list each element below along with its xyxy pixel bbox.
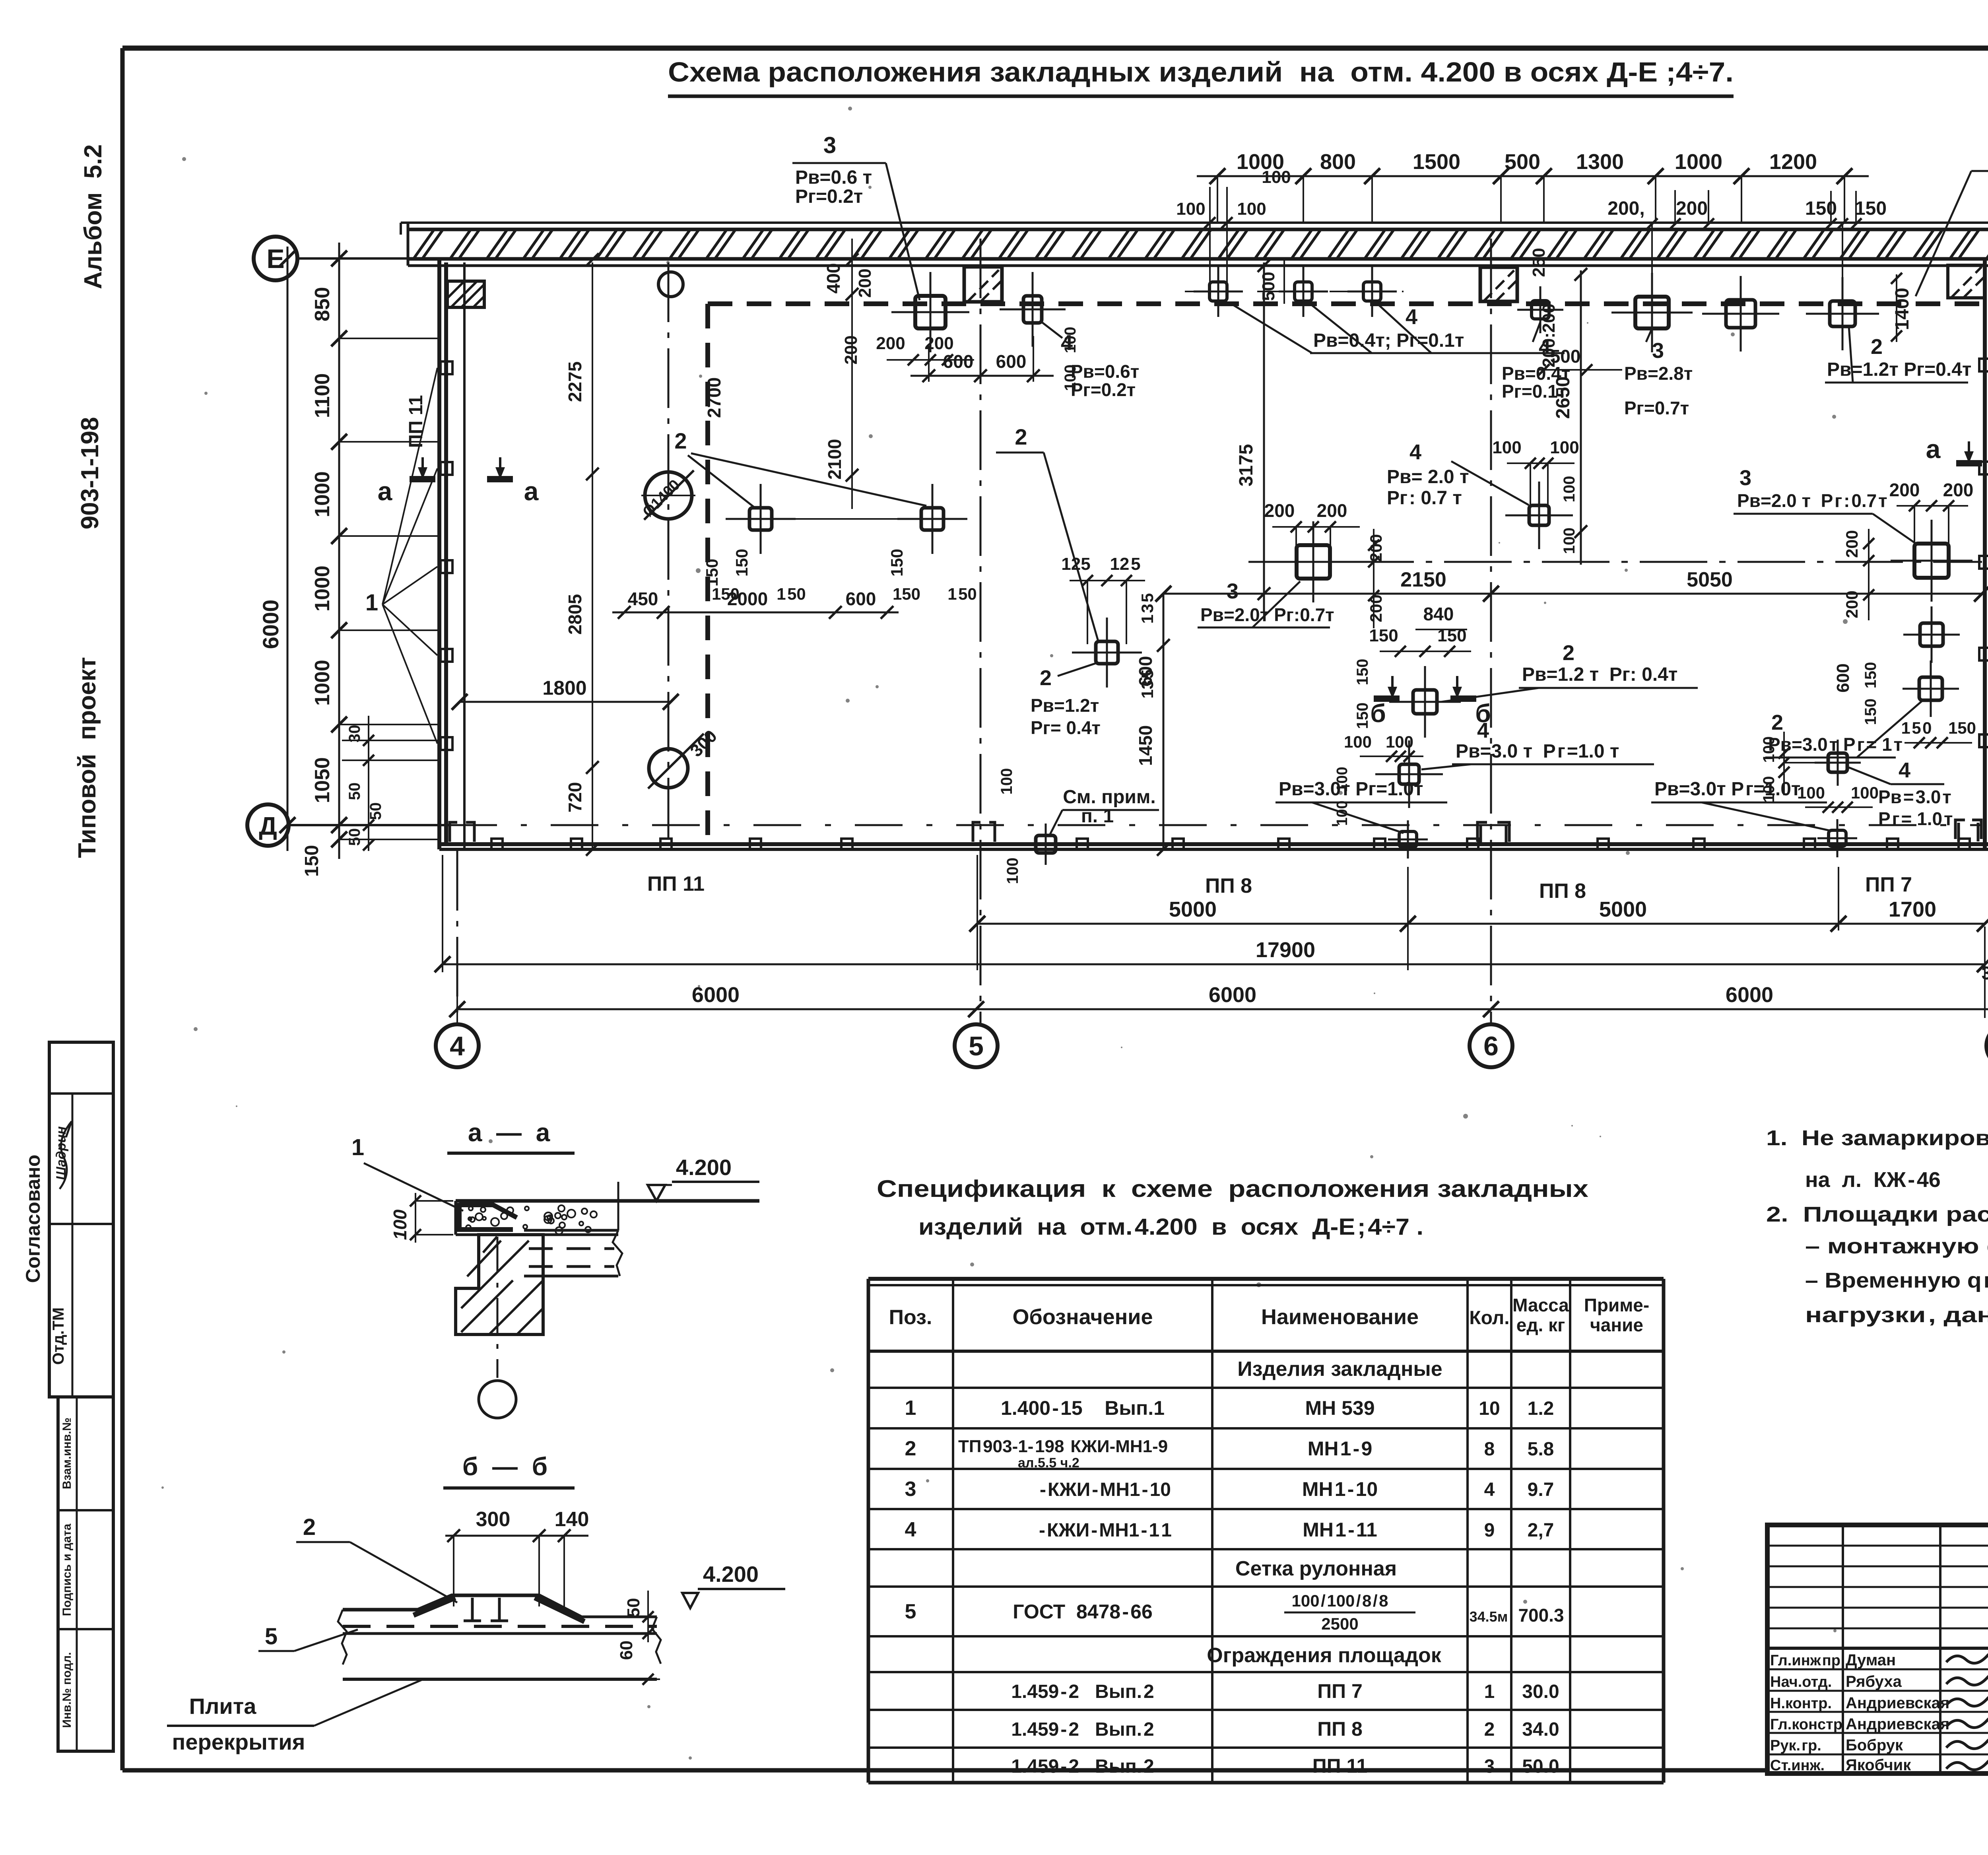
svg-text:34.0: 34.0 <box>1522 1719 1559 1740</box>
svg-text:2: 2 <box>1484 1719 1495 1740</box>
svg-text:2: 2 <box>674 428 687 453</box>
svg-text:Согласовано: Согласовано <box>22 1155 44 1283</box>
svg-text:2,7: 2,7 <box>1528 1520 1554 1541</box>
platform dashed edge vertical <box>705 304 710 843</box>
axis 6 line <box>1490 239 1492 1023</box>
svg-text:1. Не замаркированные закладн: 1. Не замаркированные закладные изделия … <box>1766 1126 1988 1150</box>
svg-text:ПП 11: ПП 11 <box>406 395 427 448</box>
svg-text:4: 4 <box>1539 335 1551 359</box>
svg-text:100: 100 <box>1004 858 1021 884</box>
column bracket axis5/D <box>973 822 995 842</box>
label 4 Pv0.4 Pg0.1 two lines <box>1502 322 1570 402</box>
svg-text:4.200: 4.200 <box>703 1562 759 1587</box>
top wall hatched strip <box>401 223 1988 266</box>
plate bottom mid <box>1388 820 1428 859</box>
center line through pair <box>736 518 958 520</box>
label 4 Pv3.0 Pg1.0 right bottom <box>1849 758 1953 829</box>
svg-text:МН 1 - 9: МН 1 - 9 <box>1308 1437 1373 1460</box>
notes text <box>1766 1126 1988 1327</box>
svg-text:150: 150 <box>732 549 751 577</box>
svg-text:1100: 1100 <box>311 373 334 418</box>
plate item4 small right of column6 <box>1517 286 1563 333</box>
svg-text:Рв=1.2т Рг=0.4т: Рв=1.2т Рг=0.4т <box>1827 359 1971 380</box>
svg-text:200: 200 <box>841 335 861 364</box>
svg-text:3: 3 <box>823 132 836 158</box>
plate item3 mid <box>1273 521 1354 602</box>
svg-text:Альбом 5.2: Альбом 5.2 <box>80 144 107 289</box>
dim 2150/5050 chain at y1493 <box>1155 568 1988 602</box>
label 4 Pv3.0 Pg1.0 <box>1421 719 1654 769</box>
svg-text:Обозначение: Обозначение <box>1012 1305 1153 1329</box>
svg-text:4.200: 4.200 <box>676 1155 732 1180</box>
svg-text:Рг : 0.7 т: Рг : 0.7 т <box>1387 488 1462 509</box>
label Pv3.0 Pg1.0 bottom right <box>1651 779 1832 831</box>
dim 200 200 rotated right of column6 <box>1539 303 1559 367</box>
svg-text:1: 1 <box>1484 1681 1495 1702</box>
section b-b slab with embedded plate <box>343 1595 657 1634</box>
svg-text:Рв=1.2т: Рв=1.2т <box>1031 695 1099 716</box>
svg-text:100: 100 <box>1760 776 1778 803</box>
svg-text:200: 200 <box>1676 198 1708 219</box>
svg-text:1: 1 <box>351 1134 364 1160</box>
svg-text:на л. КЖ - 46: на л. КЖ - 46 <box>1805 1168 1941 1192</box>
svg-text:5: 5 <box>265 1624 278 1649</box>
column axis4/E <box>447 281 484 307</box>
svg-text:4: 4 <box>1406 305 1417 329</box>
label plita perekrytiya <box>167 1680 421 1754</box>
bottom wall small plates <box>491 839 1970 850</box>
svg-text:б — б: б — б <box>462 1452 547 1481</box>
svg-text:1050: 1050 <box>311 757 334 803</box>
svg-text:6000: 6000 <box>1209 983 1256 1007</box>
plate item3 right big <box>1891 520 1972 602</box>
spec row 7 <box>1011 1718 1559 1740</box>
svg-text:500: 500 <box>1550 346 1581 367</box>
svg-text:150: 150 <box>1862 699 1879 725</box>
svg-text:800: 800 <box>1320 150 1356 174</box>
svg-text:ПП 7: ПП 7 <box>1865 873 1912 896</box>
platform dashed edge top <box>708 301 1982 306</box>
svg-text:200: 200 <box>1943 480 1974 500</box>
svg-text:Рв=2.0 т Р г : 0.7 т: Рв=2.0 т Р г : 0.7 т <box>1737 490 1887 511</box>
svg-text:Рв = 3.0 т: Рв = 3.0 т <box>1878 787 1951 807</box>
svg-text:Рв=0.6 т: Рв=0.6 т <box>795 167 872 188</box>
plate bottom right <box>1817 819 1857 857</box>
svg-text:Рв=1.2 т Рг: 0.4т: Рв=1.2 т Рг: 0.4т <box>1522 664 1677 685</box>
svg-text:200: 200 <box>1264 500 1295 521</box>
svg-text:500: 500 <box>1505 150 1540 174</box>
svg-text:10: 10 <box>1479 1398 1500 1419</box>
section b-b label 2 <box>296 1514 457 1602</box>
svg-text:Рябуха: Рябуха <box>1846 1673 1902 1690</box>
svg-text:Рг= 0.4т: Рг= 0.4т <box>1031 717 1101 738</box>
plate right mid2 <box>1903 660 1959 717</box>
svg-text:100 / 100 / 8 / 8: 100 / 100 / 8 / 8 <box>1292 1591 1388 1610</box>
svg-text:600: 600 <box>1833 663 1853 692</box>
left wall <box>439 258 464 849</box>
svg-text:Изделия закладные: Изделия закладные <box>1237 1358 1442 1381</box>
dims 200/200 left of right big plate <box>1842 529 1874 620</box>
column axis5/E <box>964 267 1002 302</box>
svg-text:150: 150 <box>1354 703 1371 729</box>
svg-text:ПП 8: ПП 8 <box>1205 874 1252 897</box>
svg-text:100: 100 <box>1062 327 1079 354</box>
label see note p1 <box>1050 787 1159 835</box>
svg-text:Инв.№ подл.: Инв.№ подл. <box>60 1652 74 1728</box>
svg-text:5000: 5000 <box>1599 897 1647 921</box>
plate item2 mid (125/135 dims) <box>1072 618 1142 688</box>
svg-text:125: 125 <box>1061 554 1090 574</box>
label 5 top right with leader <box>1916 142 1988 296</box>
label 3 Pv2.8 Pg0.7 <box>1624 328 1693 418</box>
opening circle small top <box>658 272 683 297</box>
dim 450/2000/600 chain <box>612 589 899 619</box>
svg-text:450: 450 <box>628 589 658 609</box>
svg-text:Р г = 1.0 т: Р г = 1.0 т <box>1878 808 1953 829</box>
svg-text:2: 2 <box>905 1437 916 1460</box>
dims 150 pairs around pair plates <box>703 549 977 603</box>
svg-text:– монтажную q Н = 10 кПа ( 10: – монтажную q Н = 10 кПа ( 1000 кг / м² … <box>1805 1234 1988 1258</box>
svg-text:2: 2 <box>1563 641 1574 665</box>
svg-text:Кол.: Кол. <box>1469 1307 1509 1329</box>
top small dims 200 200 <box>1607 190 1714 278</box>
svg-text:2150: 2150 <box>1400 568 1446 591</box>
svg-text:8: 8 <box>1484 1439 1495 1460</box>
svg-text:Е: Е <box>266 244 284 274</box>
column axis6/E <box>1480 267 1517 301</box>
svg-text:Нач.отд.: Нач.отд. <box>1770 1674 1832 1690</box>
spec table header texts <box>889 1295 1650 1335</box>
svg-text:17900: 17900 <box>1256 938 1315 962</box>
svg-text:а — а: а — а <box>468 1118 550 1147</box>
svg-text:1700: 1700 <box>1889 897 1936 921</box>
svg-text:200: 200 <box>876 334 905 353</box>
dims 100 100 left of plate4 bb <box>1334 732 1423 826</box>
svg-text:МН 539: МН 539 <box>1305 1397 1375 1419</box>
svg-text:150: 150 <box>703 559 721 587</box>
column bracket axis6/D <box>1477 822 1509 844</box>
svg-text:1400: 1400 <box>1892 288 1913 330</box>
svg-text:2805: 2805 <box>565 594 585 635</box>
svg-text:Масса: Масса <box>1512 1295 1569 1315</box>
dims 200 200 above right big plate <box>1889 480 1974 549</box>
svg-text:100: 100 <box>1492 438 1521 457</box>
svg-text:100: 100 <box>1797 783 1825 802</box>
svg-text:1000: 1000 <box>311 565 334 612</box>
dim 600 600 under axis5 plates <box>911 336 1054 382</box>
svg-text:1000: 1000 <box>311 471 334 517</box>
svg-text:100: 100 <box>1344 732 1372 751</box>
svg-text:нагрузки , данные на схемах (: нагрузки , данные на схемах ( л. КЖ - 44… <box>1805 1303 1988 1327</box>
spec row 1 <box>905 1397 1554 1420</box>
svg-text:Типовой проект: Типовой проект <box>74 657 101 858</box>
dim 100 100 left bottom <box>998 768 1021 884</box>
svg-text:Спецификация к схеме распол: Спецификация к схеме расположения заклад… <box>877 1175 1588 1202</box>
dim 1400 rotated right top <box>1891 273 1913 342</box>
spec row 6 <box>1011 1680 1559 1702</box>
left overall dim 6000 <box>258 247 295 851</box>
svg-text:720: 720 <box>565 782 585 813</box>
title block outer <box>1767 1525 1988 1773</box>
dim 600/1450 vertical at 2926 <box>1135 594 1170 856</box>
label 1 left with fan <box>365 368 437 744</box>
svg-text:1 3 5: 1 3 5 <box>1138 593 1157 624</box>
svg-text:2275: 2275 <box>565 361 585 402</box>
svg-text:1000: 1000 <box>311 660 334 706</box>
column axis7/E <box>1948 265 1985 298</box>
section b-b label 5 <box>258 1624 358 1651</box>
plate item2 b-b marked <box>1389 666 1461 738</box>
svg-text:1800: 1800 <box>542 677 586 699</box>
svg-text:1500: 1500 <box>1413 150 1460 174</box>
plate right small (100 dims) <box>1815 740 1861 786</box>
svg-text:Наименование: Наименование <box>1261 1305 1419 1329</box>
label 2 Pv1.2 Pg0.4 right of b-b <box>1441 641 1698 702</box>
svg-text:840: 840 <box>1423 604 1454 624</box>
svg-text:2: 2 <box>1015 424 1027 449</box>
svg-text:Сетка рулонная: Сетка рулонная <box>1235 1557 1397 1580</box>
svg-text:Рв=2.8т: Рв=2.8т <box>1624 363 1693 384</box>
svg-text:100: 100 <box>1561 528 1578 554</box>
svg-text:4: 4 <box>905 1518 916 1541</box>
svg-text:5050: 5050 <box>1687 568 1733 591</box>
signature roles and names <box>1770 1651 1949 1774</box>
spec table <box>868 1279 1664 1783</box>
svg-text:250: 250 <box>1529 248 1549 277</box>
svg-text:903-1-198: 903-1-198 <box>76 417 104 530</box>
svg-text:п. 1: п. 1 <box>1081 806 1114 827</box>
right wall <box>1985 258 1988 849</box>
svg-text:ГОСТ 8478 - 66: ГОСТ 8478 - 66 <box>1013 1601 1153 1623</box>
svg-text:600: 600 <box>1135 656 1156 687</box>
dims 200/200 right of plate item3 mid <box>1367 529 1385 628</box>
svg-text:600: 600 <box>846 589 876 609</box>
axis D line inside dash <box>449 824 1982 826</box>
svg-text:4: 4 <box>1409 440 1421 464</box>
section mark a left pair <box>378 457 539 506</box>
svg-text:2: 2 <box>303 1514 316 1540</box>
svg-text:150: 150 <box>1948 719 1976 737</box>
label 2 Pv1.2 Pg0.4 top right <box>1825 326 1971 383</box>
svg-text:5000: 5000 <box>1169 897 1217 921</box>
top small dims 150 150 <box>1805 191 1887 278</box>
axis bubble 4 <box>436 1024 479 1067</box>
svg-text:Д: Д <box>259 812 277 840</box>
left dim chain 850/1100/1000x3/1050 <box>301 243 441 877</box>
svg-text:Рг=0.2т: Рг=0.2т <box>795 186 863 207</box>
svg-text:12 5: 12 5 <box>1110 554 1140 574</box>
svg-text:2000: 2000 <box>727 589 768 609</box>
axis bubble 5 <box>955 1024 998 1067</box>
svg-text:100: 100 <box>1760 736 1778 763</box>
svg-text:200: 200 <box>1889 480 1920 500</box>
svg-text:6000: 6000 <box>258 600 283 649</box>
svg-text:200: 200 <box>1842 590 1861 618</box>
svg-text:Андриевская: Андриевская <box>1846 1694 1949 1712</box>
svg-text:Взам.инв.№: Взам.инв.№ <box>60 1418 74 1489</box>
svg-text:МН 1 - 11: МН 1 - 11 <box>1303 1519 1377 1541</box>
svg-text:150: 150 <box>1354 659 1371 686</box>
svg-text:Схема расположения закладных и: Схема расположения закладных изделий на … <box>668 56 1734 87</box>
stamp box upper (Отд.ТМ) <box>49 1042 113 1397</box>
svg-text:2: 2 <box>1771 711 1783 734</box>
wall plates item1 right wall <box>1979 359 1988 747</box>
svg-text:Гл.констр: Гл.констр <box>1770 1716 1842 1733</box>
svg-text:- КЖИ - МН1 - 10: - КЖИ - МН1 - 10 <box>1040 1479 1171 1500</box>
svg-text:3: 3 <box>905 1478 916 1501</box>
axis bubble 6 <box>1470 1024 1512 1067</box>
svg-text:140: 140 <box>555 1508 589 1531</box>
svg-text:Ст.инж.: Ст.инж. <box>1770 1757 1825 1774</box>
svg-text:а: а <box>524 476 539 506</box>
svg-text:150: 150 <box>1855 198 1887 219</box>
svg-text:700.3: 700.3 <box>1518 1605 1564 1626</box>
dim 3175 vertical <box>1236 259 1270 612</box>
svg-text:60: 60 <box>617 1641 636 1660</box>
svg-text:50: 50 <box>367 802 384 820</box>
svg-text:ал.5.5 ч.2: ал.5.5 ч.2 <box>1018 1455 1079 1470</box>
section a-a embedded angle item1 <box>459 1203 517 1232</box>
svg-text:50.0: 50.0 <box>1522 1756 1559 1777</box>
svg-text:150: 150 <box>893 585 920 603</box>
svg-text:6000: 6000 <box>1726 983 1773 1007</box>
svg-text:2700: 2700 <box>704 377 724 418</box>
svg-text:2: 2 <box>1871 335 1883 359</box>
label 2 with underline mid <box>996 424 1098 641</box>
svg-text:3: 3 <box>1652 339 1664 363</box>
svg-text:1 50: 1 50 <box>947 585 977 603</box>
svg-text:1.459 - 2 Вып. 2: 1.459 - 2 Вып. 2 <box>1011 1719 1154 1740</box>
spec row 2 <box>905 1437 1554 1470</box>
svg-text:Рв=0.4т; Рг=0.1т: Рв=0.4т; Рг=0.1т <box>1313 330 1464 351</box>
svg-text:5.8: 5.8 <box>1528 1439 1554 1460</box>
section a-a elevation 4.200 <box>648 1155 759 1201</box>
section a-a slab <box>456 1201 759 1235</box>
wall plates item1 left wall <box>441 361 452 750</box>
svg-text:Андриевская: Андриевская <box>1846 1715 1949 1733</box>
svg-text:1.2: 1.2 <box>1528 1398 1554 1419</box>
axis bubble 7 <box>1986 1024 1988 1067</box>
svg-text:МН 1 - 10: МН 1 - 10 <box>1302 1478 1378 1500</box>
svg-text:Рв= 2.0 т: Рв= 2.0 т <box>1387 466 1469 488</box>
section b-b dims 50 60 <box>617 1591 660 1685</box>
svg-text:200: 200 <box>855 268 875 297</box>
svg-text:50: 50 <box>624 1598 643 1618</box>
svg-text:9: 9 <box>1484 1520 1495 1541</box>
svg-text:200: 200 <box>1317 500 1347 521</box>
axis D line <box>289 824 449 826</box>
svg-text:150: 150 <box>1862 662 1879 689</box>
center line item3 mid long <box>1248 561 1982 563</box>
svg-text:2650: 2650 <box>1553 377 1574 419</box>
svg-text:Рв=3.0 т Р г =1.0 т: Рв=3.0 т Р г =1.0 т <box>1456 741 1619 762</box>
svg-text:Рг=0.7т: Рг=0.7т <box>1624 398 1689 418</box>
section b-b elevation 4.200 <box>682 1562 785 1608</box>
section a-a title <box>447 1118 575 1153</box>
drawing title <box>668 56 1734 96</box>
dim 2650 vertical at 3976 <box>1553 268 1587 565</box>
plate item2b top <box>1806 277 1879 350</box>
plate item2 top <box>1702 276 1779 352</box>
svg-text:3: 3 <box>1484 1756 1495 1777</box>
label 3 Pv0.6 Pg0.2 top-left <box>792 132 920 300</box>
svg-text:Рв=2.0т Рг:0.7т: Рв=2.0т Рг:0.7т <box>1200 604 1334 625</box>
axis bubble E <box>254 237 297 280</box>
svg-text:Плита: Плита <box>189 1694 257 1719</box>
svg-text:50: 50 <box>346 783 363 800</box>
svg-text:перекрытия: перекрытия <box>172 1729 305 1754</box>
plate item4 right of axis5 <box>1000 272 1066 347</box>
svg-text:6: 6 <box>1483 1031 1499 1061</box>
label 2 Pv3.0 Pg1 right <box>1765 701 1922 758</box>
section a-a beam right dashed <box>524 1182 622 1276</box>
plate item4 below b-b <box>1375 740 1443 808</box>
svg-text:Рг=0.2т: Рг=0.2т <box>1071 379 1136 400</box>
svg-text:ПП 11: ПП 11 <box>647 872 705 895</box>
openings center line vertical <box>668 262 670 843</box>
spec row 8 <box>1011 1755 1559 1777</box>
bottom dim 5000/5000/1700 <box>969 855 1988 970</box>
svg-text:5: 5 <box>969 1031 984 1061</box>
row center line <box>1185 291 1404 292</box>
section a-a label 1 <box>351 1134 463 1211</box>
dim 100 100 top near axis4 <box>1062 327 1079 391</box>
svg-text:4: 4 <box>1899 758 1910 782</box>
svg-text:1 5 0: 1 5 0 <box>1901 719 1932 737</box>
svg-text:500: 500 <box>1259 272 1278 301</box>
dims 200/200 around plate3 <box>841 268 974 365</box>
svg-text:150: 150 <box>1369 626 1398 645</box>
svg-text:ПП 8: ПП 8 <box>1317 1718 1363 1740</box>
dim 500 near 4 <box>1538 346 1622 375</box>
dims 100 100 above plate4 mid <box>1492 438 1579 554</box>
svg-text:150: 150 <box>1805 198 1837 219</box>
svg-text:4: 4 <box>1484 1479 1495 1500</box>
svg-text:150: 150 <box>887 549 906 577</box>
label 4 Pv2.0 Pg0.7 mid <box>1387 440 1529 509</box>
axis E line <box>297 257 467 260</box>
svg-text:600: 600 <box>996 351 1027 372</box>
svg-text:Бобрук: Бобрук <box>1846 1737 1903 1754</box>
svg-text:1450: 1450 <box>1135 725 1156 766</box>
signature squiggles <box>1946 1651 1988 1770</box>
section b-b lower slab with breaks <box>338 1610 661 1679</box>
svg-text:Думан: Думан <box>1846 1651 1896 1669</box>
dim 2275/2805 vertical at 1330 <box>565 253 599 856</box>
svg-text:2: 2 <box>1040 666 1052 690</box>
axis bubble D <box>247 804 289 846</box>
svg-text:1.400 - 15 Вып.1: 1.400 - 15 Вып.1 <box>1001 1397 1165 1419</box>
svg-text:а: а <box>378 476 393 506</box>
svg-text:1.459 - 2 Вып. 2: 1.459 - 2 Вып. 2 <box>1011 1681 1154 1702</box>
svg-text:Гл.инж пр: Гл.инж пр <box>1770 1652 1840 1669</box>
dim 1800 horizontal <box>452 677 679 710</box>
section mark a right pair <box>1926 434 1988 464</box>
dim 500 rotated near plates row <box>1259 260 1284 304</box>
svg-text:Приме-: Приме- <box>1584 1295 1649 1315</box>
svg-text:1.459 - 2 Вып. 2: 1.459 - 2 Вып. 2 <box>1011 1756 1154 1777</box>
svg-text:100: 100 <box>1062 365 1079 391</box>
svg-text:4: 4 <box>1477 719 1489 742</box>
svg-text:50: 50 <box>346 828 363 846</box>
plate right mid1 <box>1903 606 1960 663</box>
bottom dim 6000x3 <box>449 972 1988 1024</box>
section mark b right <box>1450 676 1491 728</box>
svg-text:Отд.ТМ: Отд.ТМ <box>50 1307 67 1365</box>
plates pair item2 middle left <box>726 484 796 554</box>
label 2 for pair <box>674 428 926 508</box>
plate item3 near axis5 top <box>891 272 969 352</box>
